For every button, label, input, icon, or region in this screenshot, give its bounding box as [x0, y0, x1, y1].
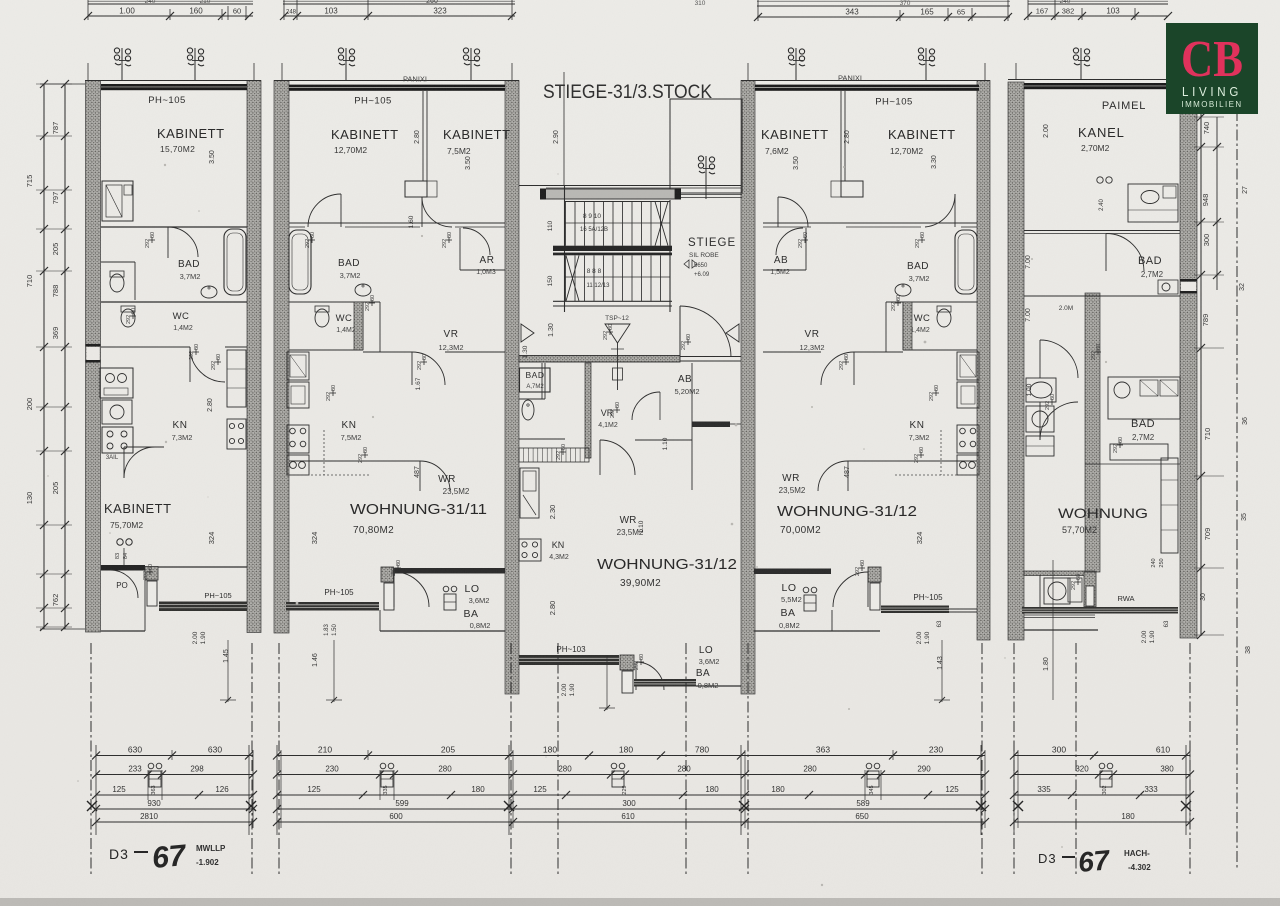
unit4 stove: [957, 425, 979, 453]
center parapet bar: [519, 655, 619, 665]
unit1 toilet upper: [110, 274, 124, 292]
unit1 top wall band: [101, 84, 247, 90]
centre dash-dot line x1190: [1189, 643, 1191, 876]
unit1 kitchen lower wall: [124, 446, 164, 448]
svg-text:LIVING: LIVING: [1182, 85, 1242, 99]
extension stub x985: [984, 63, 986, 80]
unit1 washer: [102, 400, 132, 424]
stair shaft rectangle: [670, 99, 742, 193]
unit1 stove: [102, 427, 133, 453]
stair break marks: [655, 202, 668, 246]
top chain unit1 ticks: [84, 12, 92, 20]
unit5 bottom fixtures: [1039, 575, 1041, 607]
party wall W7: [1008, 82, 1024, 640]
unit4 top wall outer line: [741, 80, 990, 82]
unit4 plumbing wall: [903, 302, 912, 350]
centre dash-dot line x748: [747, 643, 749, 876]
unit4 loggia bottom line: [754, 630, 880, 632]
unit4 AB door arc: [776, 228, 803, 255]
unit4 window cluster: [803, 587, 809, 593]
unit1 vest block: [145, 567, 158, 581]
centre dash-dot line x1014: [1013, 643, 1015, 876]
unit2 wall y302: [289, 301, 380, 303]
unit1 bath door arc: [168, 227, 198, 257]
center fridge: [520, 468, 539, 518]
bottom chain A lines: [96, 755, 253, 757]
stair landing gray band: [545, 189, 675, 199]
unit1 door arc kitchen: [190, 347, 225, 382]
stair treads: [565, 202, 567, 246]
unit2 wc walls: [362, 302, 364, 350]
ext line 143 center: [606, 655, 608, 710]
right dim ticks: [1197, 113, 1205, 121]
unit5 middle door arcs: [1040, 340, 1078, 378]
stiege diamond symbol: [684, 260, 697, 268]
party wall W1: [86, 81, 101, 633]
unit1 wall y302: [101, 301, 247, 303]
unit1 stove right: [227, 419, 246, 449]
left dim vertical lines: [43, 84, 45, 629]
centre dash-dot line x511: [510, 643, 512, 876]
right vent triangle: [726, 324, 739, 342]
unit4 door arc left kab: [778, 197, 808, 227]
party wall W5: [741, 81, 755, 695]
centre dash-dot line x982: [981, 643, 983, 876]
unit2 bathtub: [289, 230, 311, 294]
stair cage outline: [564, 186, 566, 312]
center AB shelf bar: [692, 422, 730, 428]
unit5 lower-left fixtures: [1026, 378, 1056, 402]
bottom chain B lines: [277, 755, 513, 757]
unit2 VR door arc: [412, 352, 445, 385]
unit1 parapet: [159, 602, 247, 612]
center VR door arc2: [632, 392, 660, 420]
centre dash-dot line x686: [685, 643, 687, 876]
left vent triangle: [521, 324, 534, 342]
centre dash-dot line x91: [90, 643, 92, 876]
unit5 lower bath fixtures: [1108, 377, 1180, 419]
unit2 toilet: [315, 309, 329, 327]
unit1 bath wall: [101, 226, 247, 228]
logo green square: [1166, 23, 1258, 114]
centre dash-dot line x1076: [1075, 643, 1077, 876]
unit4 partition wall: [840, 91, 842, 181]
unit2 door arc right kab: [422, 197, 452, 227]
unit5 kitchen column: [1161, 458, 1178, 553]
svg-text:CB: CB: [1181, 31, 1243, 88]
unit4 vr wall: [885, 302, 887, 352]
stair mid landing dark bar: [553, 246, 672, 251]
top dimension chain unit1 line lower: [88, 15, 253, 17]
unit1 washbasin: [201, 286, 217, 298]
unit1 kitchen sink block: [100, 368, 133, 398]
unit2 wall y461: [289, 460, 420, 462]
stair walk lines: [565, 222, 671, 224]
ext line 145 unit1: [227, 640, 229, 702]
center partition walls: [585, 363, 591, 458]
unit4 washbasin: [895, 284, 911, 296]
unit4 vest gray block: [868, 567, 881, 582]
hall partition left of BAD: [541, 363, 543, 399]
BAD box label center: [520, 368, 551, 392]
unit5 BAD door arc: [1106, 234, 1144, 272]
window marker cluster x797: [788, 48, 793, 53]
center vest gray block: [620, 655, 634, 670]
ext line 146 unit2: [333, 640, 335, 702]
bottom chain C lines: [513, 755, 745, 757]
unit5 top window cluster: [1097, 177, 1103, 183]
paper specks: [421, 235, 423, 237]
chain D window symbol: [866, 763, 872, 769]
hall wall hatched band: [519, 356, 680, 363]
unit2 door arc left kab: [308, 194, 341, 227]
center kitchen tile counter: [519, 448, 589, 462]
unit5 top wall outer line: [1008, 79, 1197, 81]
unit2 loggia bottom line: [380, 630, 505, 632]
unit4 wall y461: [848, 460, 977, 462]
unit2 vest gray block: [381, 567, 394, 582]
svg-text:IMMOBILIEN: IMMOBILIEN: [1182, 99, 1243, 109]
unit1 PO room: [144, 570, 146, 631]
chain E window symbol: [1099, 763, 1105, 769]
unit4 hall wall: [763, 222, 977, 224]
unit4 toilet: [937, 309, 951, 327]
unit2 WR door arc: [420, 461, 450, 491]
right section dash-dot line: [1236, 110, 1238, 868]
unit5 bathtub lower: [1110, 444, 1168, 460]
chain A verticals: [95, 745, 97, 835]
unit2 window cluster: [443, 586, 449, 592]
unit1 top wall outer line: [85, 80, 261, 82]
unit4 kitchen unit2: [957, 382, 979, 408]
bottom chain D lines: [745, 755, 985, 757]
stair band end jambs: [540, 189, 546, 200]
unit4 sink: [957, 455, 979, 475]
stair dim extension line: [563, 72, 565, 186]
top chain unit2 ticks: [280, 12, 288, 20]
unit1 closet: [102, 181, 133, 221]
stair shaft marker cluster: [698, 156, 703, 161]
window marker cluster x123: [114, 48, 119, 53]
unit2 kitchen dashed edge: [287, 474, 370, 476]
top dimension chain unit2 lines: [283, 3, 515, 5]
unit2 partition wall: [422, 91, 424, 181]
unit5 bottom line: [1024, 629, 1098, 631]
unit5 vest block: [1084, 572, 1096, 607]
unit4 kitchen dashed edge: [895, 474, 977, 476]
unit4 loggia door arc: [833, 572, 868, 607]
unit5 wall y464: [1085, 463, 1180, 465]
unit1 lower window marker: [117, 539, 123, 545]
sheet label right dash: [1062, 856, 1075, 858]
unit5 parapet: [1022, 607, 1178, 614]
door dimension clusters: [149, 239, 155, 241]
bottom scan edge band: [0, 898, 1280, 906]
unit2 top wall band: [289, 85, 505, 91]
wall W8 window break: [1181, 282, 1196, 291]
chain A window symbol: [148, 763, 154, 769]
window marker cluster x927: [918, 48, 923, 53]
sheet label left dash: [134, 851, 148, 853]
chain C window symbol: [611, 763, 617, 769]
party wall W4: [505, 81, 519, 695]
unit4 wall y302: [886, 301, 977, 303]
unit4 top wall band: [755, 85, 979, 91]
unit4 bathtub: [955, 230, 977, 294]
unit5 centre line: [1052, 560, 1054, 700]
unit2 parapet: [286, 602, 379, 611]
unit4 wc walls: [902, 302, 904, 350]
left dim ticks: [40, 80, 48, 88]
window marker cluster x347: [338, 48, 343, 53]
center washbasin: [522, 400, 534, 420]
unit1 wall y347: [101, 346, 190, 348]
unit2 plumbing wall: [354, 302, 363, 350]
hall door arc: [680, 306, 731, 357]
party wall W3: [274, 81, 289, 634]
party wall W8: [1180, 82, 1197, 638]
unit5 top wall band: [1024, 83, 1180, 89]
unit1 bathtub: [224, 229, 246, 295]
extension stub x282: [281, 63, 283, 80]
center stove: [519, 539, 541, 561]
bottom chain E lines: [1014, 755, 1190, 757]
centre dash-dot line x279: [278, 643, 280, 876]
top dimension chain unit1 line upper: [88, 3, 253, 5]
unit4 VR door arc: [821, 352, 854, 385]
chain anchor X marks: [87, 801, 97, 811]
unit5 top bath fixtures: [1128, 184, 1178, 222]
unit5 loggia top band: [1024, 571, 1095, 576]
unit4 shaft: [841, 181, 863, 197]
unit2 top wall outer line: [274, 80, 519, 82]
unit5 wall y296: [1024, 295, 1180, 297]
extension stub x512: [511, 63, 513, 80]
unit4 door arc right kab: [925, 194, 955, 227]
unit2 loggia door arc: [394, 572, 429, 607]
unit2 sink: [287, 455, 309, 475]
unit2 AR door arc: [463, 228, 490, 255]
wall W1 window break: [87, 347, 100, 360]
unit2 stove: [287, 425, 309, 453]
window marker cluster x196: [187, 48, 192, 53]
unit2 washbasin: [355, 284, 371, 296]
center door arc to WR: [600, 440, 635, 475]
unit4 bottom wall bar: [754, 569, 831, 575]
extension stub x1188: [1187, 63, 1189, 80]
top dimension chain unit5 lines: [1028, 3, 1168, 5]
unit2 vr wall: [379, 302, 381, 352]
unit5 wall y231: [1024, 230, 1180, 232]
unit1 bottom wall: [101, 566, 247, 568]
unit4 parapet: [881, 606, 949, 614]
window marker cluster x1082: [1073, 48, 1078, 53]
unit1 WC room walls: [101, 261, 135, 263]
unit4 AB room: [805, 228, 807, 270]
extension stub x748: [747, 63, 749, 80]
extension stub x88: [87, 63, 89, 80]
party wall W2: [247, 81, 261, 633]
centre dash-dot line x558: [557, 643, 559, 876]
top chain unit5 ticks: [1024, 12, 1032, 20]
unit2 bottom wall bar: [393, 568, 505, 574]
unit2 hall wall: [289, 222, 505, 224]
unit2 AR room: [459, 228, 461, 270]
right dim vertical lines: [1200, 95, 1202, 636]
unit1 toilet lower: [121, 309, 135, 327]
unit2 shaft: [405, 181, 427, 197]
top chain cut row: [88, 0, 253, 2]
unit4 kitchen fridge: [957, 352, 979, 380]
center lower parapet: [634, 679, 696, 687]
chain E verticals: [1013, 745, 1015, 835]
extension stub x1016: [1015, 63, 1017, 80]
extension stub x254: [253, 63, 255, 80]
window marker cluster x472: [463, 48, 468, 53]
stair block top line: [519, 185, 741, 187]
chain D verticals: [980, 745, 982, 835]
unit2 kitchen fridge: [287, 352, 309, 380]
ext line 143 unit4: [941, 640, 943, 702]
centre dash-dot line x252: [251, 643, 253, 876]
unit2 kitchen unit2: [287, 382, 309, 408]
scan noise overlay: [0, 0, 1, 1]
interior hatched wall unit5: [1085, 293, 1100, 572]
top chain center ticks: [754, 13, 762, 21]
chain C verticals: [740, 745, 742, 835]
center loggia door arc: [636, 662, 664, 690]
chain B verticals: [276, 745, 278, 835]
unit5 bad fixture: [1158, 280, 1178, 294]
chain B window symbol: [380, 763, 386, 769]
unit1 kitchen tall unit: [227, 350, 246, 407]
party wall W6: [977, 81, 990, 641]
unit4 WR door arc: [818, 461, 848, 491]
top dimension chain center lines: [757, 5, 1010, 7]
